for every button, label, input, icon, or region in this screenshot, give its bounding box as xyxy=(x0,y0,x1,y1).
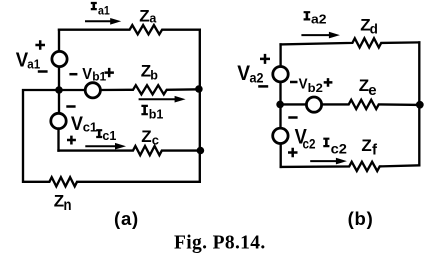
svg-text:n: n xyxy=(64,197,72,214)
svg-text:a1: a1 xyxy=(98,4,110,18)
svg-text:a1: a1 xyxy=(27,56,40,71)
svg-text:c2: c2 xyxy=(331,142,347,157)
svg-text:V: V xyxy=(299,76,308,92)
svg-text:Fig. P8.14.: Fig. P8.14. xyxy=(174,232,266,253)
svg-text:V: V xyxy=(237,62,250,85)
svg-text:(b): (b) xyxy=(348,208,374,229)
svg-text:(a): (a) xyxy=(114,208,139,229)
svg-text:c2: c2 xyxy=(303,136,316,151)
svg-text:b1: b1 xyxy=(149,107,164,121)
svg-text:b1: b1 xyxy=(92,69,106,83)
svg-text:a2: a2 xyxy=(311,12,327,27)
svg-text:Z: Z xyxy=(139,7,149,26)
svg-text:Z: Z xyxy=(141,127,151,146)
svg-text:c: c xyxy=(152,132,159,147)
svg-text:V: V xyxy=(71,114,83,135)
svg-text:a: a xyxy=(149,12,157,26)
svg-text:a2: a2 xyxy=(250,71,264,86)
svg-text:b: b xyxy=(150,68,158,82)
svg-text:f: f xyxy=(372,142,378,159)
svg-text:V: V xyxy=(82,66,92,83)
svg-text:d: d xyxy=(370,22,378,37)
svg-text:b2: b2 xyxy=(308,81,324,95)
svg-text:c1: c1 xyxy=(83,120,97,135)
svg-text:c1: c1 xyxy=(102,129,116,143)
svg-text:e: e xyxy=(368,82,376,99)
svg-text:Z: Z xyxy=(361,136,371,155)
